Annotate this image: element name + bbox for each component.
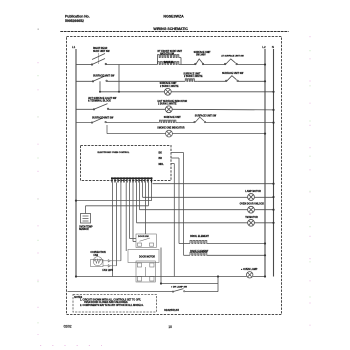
svg-text:SMOKE ONE INDICATOR: SMOKE ONE INDICATOR	[157, 127, 185, 130]
svg-text:1. CIRCUIT SHOWN WITH ALL CON: 1. CIRCUIT SHOWN WITH ALL CONTROLS SET T…	[80, 298, 141, 301]
svg-text:SURFACE UNIT: SURFACE UNIT	[183, 72, 201, 75]
svg-text:● OVEN LAMP: ● OVEN LAMP	[241, 268, 258, 271]
svg-text:OVEN DOOR CLOSED AND UNLOCKED.: OVEN DOOR CLOSED AND UNLOCKED.	[84, 301, 128, 304]
svg-text:2. COMPONENTS MAY N IN ANY O: 2. COMPONENTS MAY N IN ANY OPTION IN ALL…	[80, 304, 144, 307]
svg-text:OVEN DOOR UNLOCK: OVEN DOOR UNLOCK	[240, 204, 265, 206]
svg-text:ANTI-TIP SW: ANTI-TIP SW	[160, 53, 175, 56]
svg-text:SURF UNIT SW: SURF UNIT SW	[93, 51, 110, 53]
svg-text:ELECTRONIC OVEN CONTROL: ELECTRONIC OVEN CONTROL	[98, 152, 130, 154]
svg-text:HOT SURFACE LIGHT SW: HOT SURFACE LIGHT SW	[88, 97, 117, 100]
svg-text:SURFACE UNIT: SURFACE UNIT	[164, 116, 182, 119]
svg-text:2 BURN 1 WHITE: 2 BURN 1 WHITE	[160, 86, 179, 88]
svg-text:Publication No.: Publication No.	[65, 14, 90, 18]
svg-text:LAMP MOTOR: LAMP MOTOR	[245, 190, 261, 193]
svg-text:316255145: 316255145	[164, 308, 179, 312]
svg-text:BAKE EL: BAKE EL	[164, 61, 175, 64]
svg-text:L2: L2	[262, 45, 266, 49]
svg-text:SENSOR: SENSOR	[79, 229, 89, 231]
svg-text:SURFACE UNIT: SURFACE UNIT	[160, 82, 178, 85]
svg-text:BAKE ELEMENT: BAKE ELEMENT	[190, 250, 209, 253]
svg-text:FAN: FAN	[94, 254, 99, 257]
svg-text:L1: L1	[72, 45, 76, 49]
svg-text:BK: BK	[159, 152, 163, 155]
svg-text:WIRING SCHEMATIC: WIRING SCHEMATIC	[153, 27, 188, 31]
svg-text:HOT SURFACE INDICATOR: HOT SURFACE INDICATOR	[158, 100, 188, 103]
svg-text:10: 10	[168, 325, 172, 329]
svg-text:BR: BR	[159, 157, 163, 160]
svg-text:2 BURN 1 WHITE: 2 BURN 1 WHITE	[158, 103, 177, 105]
svg-text:● DR LAMP SW: ● DR LAMP SW	[171, 285, 188, 288]
svg-text:5995266652: 5995266652	[65, 19, 84, 23]
svg-text:DOOR MOTOR: DOOR MOTOR	[139, 256, 155, 258]
svg-text:SURFACE UNIT: SURFACE UNIT	[194, 51, 212, 54]
svg-text:SURFACE UNIT SW: SURFACE UNIT SW	[92, 116, 114, 119]
svg-text:FAN 120V: FAN 120V	[102, 269, 113, 272]
svg-text:SURFACE UNIT SW: SURFACE UNIT SW	[195, 114, 217, 117]
svg-text:MDL: MDL	[159, 163, 165, 166]
svg-text:02/02: 02/02	[64, 325, 72, 329]
svg-text:SW 240V: SW 240V	[196, 54, 206, 57]
svg-text:TM MOTOR: TM MOTOR	[245, 217, 258, 219]
svg-text:AT SURFACE UNIT SW: AT SURFACE UNIT SW	[221, 55, 244, 58]
svg-text:RIGHT REAR: RIGHT REAR	[93, 47, 108, 50]
svg-text:NGSE3WZA: NGSE3WZA	[163, 15, 184, 19]
svg-text:DOOR SW: DOOR SW	[138, 236, 150, 238]
svg-text:2 BURN 1 WHITE: 2 BURN 1 WHITE	[184, 76, 203, 78]
svg-text:SURFACE UNIT SW: SURFACE UNIT SW	[222, 72, 244, 75]
svg-text:& TERMINAL BLOCK: & TERMINAL BLOCK	[88, 100, 111, 103]
svg-text:BROIL ELEMENT: BROIL ELEMENT	[190, 236, 209, 238]
svg-text:N: N	[272, 45, 274, 49]
svg-text:SURFACE UNIT SW: SURFACE UNIT SW	[93, 75, 115, 78]
